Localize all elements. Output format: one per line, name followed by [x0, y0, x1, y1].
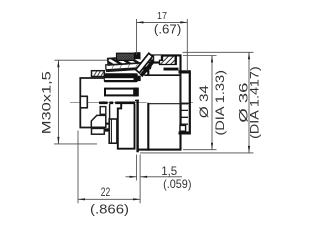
dia34 arrowheads	[211, 55, 213, 62]
centerline dot	[103, 101, 105, 103]
lower tall box	[109, 119, 117, 143]
svg-text:(.67): (.67)	[154, 22, 181, 36]
nut bottom band	[104, 123, 118, 132]
dim 17 arrowheads	[137, 21, 144, 23]
svg-text:1,5: 1,5	[161, 164, 177, 178]
terminal stack stripes	[181, 104, 188, 132]
internal bore band below axis	[99, 101, 135, 104]
M30 arrowheads	[57, 60, 59, 67]
dim 22 lines	[77, 131, 79, 204]
rear notch box	[80, 96, 87, 108]
lower notch piece	[100, 107, 106, 115]
gland hatch band	[108, 56, 151, 65]
svg-text:Ø 34: Ø 34	[197, 85, 211, 118]
flange left face relief	[147, 76, 150, 103]
back disc rear face	[189, 70, 191, 134]
inner housing box (below axis)	[118, 104, 135, 149]
lower chamfer piece	[91, 115, 106, 127]
gland tick band	[106, 62, 151, 70]
gasket right edge bold	[175, 56, 177, 65]
svg-text:(.866): (.866)	[90, 201, 129, 216]
svg-text:(DIA 1.417): (DIA 1.417)	[247, 66, 261, 139]
clip spring arm dark stripe	[140, 58, 156, 77]
gasket hatch top	[160, 56, 177, 65]
dim M30 lines	[57, 60, 59, 144]
dim dia34 lines	[211, 55, 213, 149]
core internal top edge	[144, 74, 180, 76]
flange internal horizontal below axis	[148, 103, 189, 105]
flange step bar	[154, 61, 167, 63]
dim 17 lines	[137, 21, 188, 23]
arrows	[57, 21, 250, 200]
white gap right of chunk	[141, 52, 150, 61]
clip black chunk top	[135, 52, 141, 59]
nut top band (capsule)	[104, 73, 138, 82]
dia36 arrowheads	[248, 52, 250, 59]
svg-text:(DIA 1.33): (DIA 1.33)	[213, 70, 227, 136]
clip bar cap	[135, 100, 139, 102]
knurl box top	[92, 71, 105, 77]
flange disc (dia 34)	[148, 55, 180, 149]
dim 22 arrowheads	[78, 198, 85, 200]
flange bottom edge left extension	[138, 149, 149, 151]
knurl box bottom	[92, 128, 105, 134]
rear body (left section)	[80, 78, 106, 128]
dim dia36 lines	[248, 52, 250, 153]
nut band right end cap	[134, 76, 141, 81]
dim 1,5 arrowheads	[130, 176, 137, 178]
svg-text:M30x1,5: M30x1,5	[40, 71, 54, 134]
svg-text:17: 17	[157, 10, 167, 22]
lower link line	[109, 104, 111, 119]
nut bottom band slit	[105, 125, 118, 129]
clip spring arm (diagonal band)	[136, 53, 153, 73]
centerline	[70, 101, 193, 103]
slot bar right end fill	[133, 88, 138, 97]
svg-text:22: 22	[101, 185, 111, 199]
dim 1,5 lines	[136, 155, 138, 181]
gland dark groove band	[106, 67, 151, 72]
flange inner step box	[154, 56, 162, 63]
dim texts	[40, 10, 262, 216]
terminal bottom box	[180, 125, 186, 131]
clip bar bottom (dia 36)	[136, 100, 138, 153]
back disc top band	[179, 70, 191, 73]
flange face hidden thin line	[180, 74, 182, 104]
back disc internal top edge	[164, 68, 179, 71]
tall box divider	[110, 119, 112, 143]
crosshatch block	[117, 53, 135, 60]
back disc bottom band	[179, 131, 191, 134]
knurl ticks top	[94, 71, 104, 76]
slot bar top	[105, 89, 138, 96]
nut top band slit	[105, 78, 134, 80]
svg-text:(.059): (.059)	[163, 177, 191, 191]
flange top-left corner stub	[147, 68, 149, 72]
